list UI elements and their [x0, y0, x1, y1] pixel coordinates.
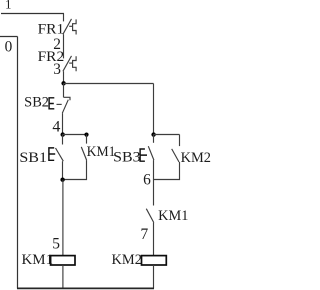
wire L1 top rail [1, 13, 64, 15]
svg-text:SB3: SB3 [113, 149, 140, 165]
thermal relay contact FR2 [63, 56, 76, 71]
junction bottom of SB1/KM1 parallel [60, 178, 64, 182]
svg-text:KM2: KM2 [181, 150, 211, 166]
wire node 4 to KM1 aux branch [63, 134, 87, 136]
svg-text:SB2: SB2 [24, 94, 49, 110]
wire KM2 coil to bus [153, 265, 155, 288]
pushbutton SB1 (NO start) [49, 135, 63, 180]
svg-text:KM1: KM1 [158, 208, 188, 224]
svg-text:KM1: KM1 [22, 252, 54, 268]
svg-text:0: 0 [5, 39, 13, 56]
wire bottom return bus [17, 287, 154, 289]
wire SB2 to node 4 [62, 113, 64, 134]
svg-text:SB1: SB1 [19, 150, 47, 166]
wire N 0 rail horizontal [0, 36, 18, 38]
wire KM1 coil to bus [62, 265, 64, 288]
wire from L1 rail down to FR1 [63, 14, 65, 22]
svg-text:5: 5 [52, 235, 60, 252]
coil KM2 [142, 256, 167, 265]
coil KM1 [51, 256, 75, 265]
wire node 3 to right rung [64, 83, 154, 85]
pushbutton SB3 (NO start) [140, 135, 154, 181]
wire right rung drop [153, 84, 155, 135]
wire node 2 (FR1 to FR2) [63, 34, 65, 58]
svg-text:FR1: FR1 [38, 22, 65, 38]
wire node to KM2 aux branch [154, 134, 180, 136]
contact KM1 interlock (NO, series) [146, 209, 154, 256]
contact KM2 auxiliary (NO, self-hold) [154, 135, 180, 180]
wire N 0 rail vertical [17, 37, 19, 289]
junction right rung top [151, 132, 155, 136]
svg-text:3: 3 [53, 61, 61, 78]
svg-text:KM2: KM2 [112, 252, 142, 268]
wire node 4 bottom to KM1 coil [62, 180, 64, 256]
svg-text:4: 4 [52, 119, 60, 136]
pushbutton SB2 (NC stop) [49, 84, 70, 114]
wire node 6 down [153, 180, 155, 206]
svg-text:6: 6 [143, 171, 151, 188]
node 3 junction [61, 81, 65, 85]
wire FR2 to node 3 [63, 71, 65, 83]
thermal relay contact FR1 [63, 19, 76, 35]
junction at KM1 aux top [84, 133, 88, 137]
contact KM1 auxiliary (NO, self-hold) [63, 135, 87, 180]
node 4 junction [61, 132, 65, 136]
svg-text:7: 7 [140, 226, 148, 243]
svg-text:KM1: KM1 [87, 144, 116, 160]
svg-text:1: 1 [5, 0, 11, 12]
